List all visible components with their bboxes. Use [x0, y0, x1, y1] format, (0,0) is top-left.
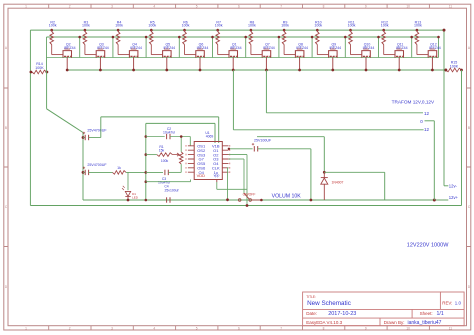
- junction Q6 source: [199, 69, 202, 72]
- oscillator left rail: [145, 123, 147, 200]
- wire C5 right: [89, 137, 101, 139]
- wire gate-res to Q2: [52, 54, 63, 56]
- wire R14-right down: [46, 72, 48, 109]
- wire 0 stub: [425, 120, 435, 122]
- svg-text:IRFZ44: IRFZ44: [163, 46, 175, 50]
- svg-text:12v+: 12v+: [449, 195, 459, 200]
- junction second bus 8: [311, 36, 314, 39]
- title block: [303, 292, 465, 326]
- LED D1: [122, 186, 131, 200]
- svg-text:6: 6: [238, 5, 240, 9]
- svg-text:12: 12: [424, 111, 430, 116]
- junction second bus 12: [437, 36, 440, 39]
- wire 12v- stub: [444, 185, 448, 187]
- wire top bus corner down to 12v-: [443, 30, 445, 186]
- transistor Q11 IRFZ44: [395, 49, 404, 58]
- junction second bus 6: [244, 36, 247, 39]
- junction switch right: [260, 199, 263, 202]
- transistor Q7 IRFZ44: [262, 49, 271, 58]
- junction R15 right: [460, 69, 463, 72]
- transistor Q10 IRFZ44: [362, 49, 371, 58]
- junction diode top: [323, 171, 326, 174]
- svg-text:IRFZ44: IRFZ44: [296, 46, 308, 50]
- wire gate-res to Q1: [218, 54, 229, 56]
- wire pot bottom: [180, 164, 182, 172]
- resistor R9 100k: [283, 29, 286, 32]
- wire pin6 row: [228, 167, 229, 169]
- junction Q10 source: [365, 69, 368, 72]
- wire right rail down to line B: [461, 70, 463, 206]
- svg-text:1.0: 1.0: [455, 301, 462, 306]
- junction R14 left: [30, 71, 33, 74]
- junction lineA x227: [226, 198, 229, 201]
- transistor Q1 IRFZ44: [229, 49, 238, 58]
- svg-text:4069: 4069: [206, 134, 214, 138]
- svg-text:1: 1: [25, 5, 27, 9]
- junction second bus 10: [377, 36, 380, 39]
- svg-text:2: 2: [69, 5, 71, 9]
- svg-text:Sheet:: Sheet:: [420, 311, 433, 316]
- wire 0-terminal down to 12v+: [433, 121, 435, 200]
- resistor R15 100K: [446, 68, 462, 72]
- svg-text:10u47ul: 10u47ul: [163, 131, 175, 135]
- svg-text:100k: 100k: [414, 24, 422, 28]
- wire 1k to rail: [126, 171, 146, 173]
- svg-text:IRFZ44: IRFZ44: [130, 46, 142, 50]
- capacitor C2 10u47ul: [146, 136, 165, 138]
- wire gate-res to Q12: [417, 54, 428, 56]
- wire cell vertical 4: [178, 37, 180, 58]
- svg-text:100k: 100k: [161, 159, 169, 163]
- wire cell vertical 0: [46, 37, 48, 72]
- junction second bus 3: [145, 36, 148, 39]
- junction rail C3 row: [145, 171, 148, 174]
- svg-text:15k: 15k: [159, 148, 165, 152]
- wire down to line B: [246, 155, 248, 206]
- wire L5: [257, 136, 324, 138]
- junction second bus 11: [410, 36, 413, 39]
- svg-text:TRAFOM 12V,0,12V: TRAFOM 12V,0,12V: [392, 100, 435, 105]
- wire Q7 source lead: [265, 58, 267, 70]
- svg-text:25V100UF: 25V100UF: [254, 138, 272, 142]
- svg-text:2: 2: [69, 326, 71, 330]
- svg-text:4: 4: [153, 326, 155, 330]
- svg-text:25V4700UF: 25V4700UF: [87, 163, 107, 167]
- svg-text:IRFZ44: IRFZ44: [97, 46, 109, 50]
- wire line B: [30, 205, 461, 207]
- wire primary top 12: [266, 112, 423, 114]
- svg-text:100k: 100k: [148, 24, 156, 28]
- svg-text:100k: 100k: [49, 24, 57, 28]
- svg-text:7: 7: [280, 5, 282, 9]
- wire to line B vert: [217, 188, 247, 190]
- wire top gate-drive bus: [30, 29, 444, 31]
- junction vdd pin: [228, 148, 230, 150]
- svg-text:IRFZ44: IRFZ44: [263, 46, 275, 50]
- svg-text:8: 8: [323, 326, 325, 330]
- resistor R? 1k: [113, 171, 127, 175]
- svg-text:3: 3: [111, 326, 113, 330]
- svg-text:11: 11: [449, 326, 453, 330]
- svg-text:10: 10: [406, 326, 410, 330]
- potentiometer 100k wiper: [172, 153, 179, 156]
- svg-text:EasyEDA V4.10.3: EasyEDA V4.10.3: [306, 320, 342, 325]
- svg-text:100k: 100k: [215, 24, 223, 28]
- IC pin numbers: [186, 145, 230, 173]
- junction top bus corner: [443, 29, 446, 32]
- resistor R14 100K: [32, 70, 47, 74]
- svg-text:IRFZ44: IRFZ44: [230, 46, 242, 50]
- wire down to line A: [384, 172, 386, 200]
- junction second bus 7: [278, 36, 281, 39]
- svg-text:3: 3: [111, 5, 113, 9]
- svg-text:B: B: [468, 126, 470, 130]
- wire cell vertical 11: [411, 37, 413, 58]
- svg-text:VDD: VDD: [197, 173, 206, 178]
- wire gate-res to Q6: [185, 54, 196, 56]
- junction Q11 source: [398, 69, 401, 72]
- capacitor C4 25v100uf: [167, 197, 170, 202]
- wire Q8 source to primary top: [265, 70, 267, 113]
- wire Q10 source lead: [365, 58, 367, 70]
- wire cell vertical 1: [79, 37, 81, 58]
- transistor Q9 IRFZ44: [329, 49, 338, 58]
- svg-text:8: 8: [323, 5, 325, 9]
- wire gate-res to Q3: [85, 54, 96, 56]
- wire vdd down to line A: [310, 149, 312, 200]
- svg-text:100k: 100k: [348, 24, 356, 28]
- transistor Q2 IRFZ44: [63, 49, 72, 58]
- potentiometer 100k: [179, 152, 183, 164]
- wire cap rail vertical: [82, 133, 84, 201]
- resistor R2 100k: [50, 29, 53, 32]
- wire Q2 source lead: [66, 58, 68, 70]
- op-amp U1 4069 hex inverter IC: [194, 142, 222, 180]
- junction vdd lineA: [310, 199, 313, 202]
- resistor R10 100k: [316, 29, 319, 32]
- wire transistor source bottom bus: [67, 69, 446, 71]
- svg-text:100K: 100K: [450, 64, 459, 68]
- wire Q8 source lead: [299, 58, 301, 70]
- wire gate-res to Q10: [351, 54, 362, 56]
- svg-text:Date:: Date:: [306, 311, 317, 316]
- wire Q9 source lead: [332, 58, 334, 70]
- junction second bus 9: [344, 36, 347, 39]
- wire line A (12v+): [83, 199, 434, 201]
- wire left rail lower: [29, 72, 31, 206]
- svg-text:5: 5: [196, 5, 198, 9]
- frame row ticks: [4, 88, 471, 247]
- svg-text:100k: 100k: [248, 24, 256, 28]
- junction R14 right: [46, 71, 49, 74]
- svg-text:100k: 100k: [314, 24, 322, 28]
- svg-text:IRFZ44: IRFZ44: [396, 46, 408, 50]
- junction Q9 source: [331, 69, 334, 72]
- junction Q1 source: [232, 69, 235, 72]
- transistor Q5 IRFZ44: [163, 49, 172, 58]
- svg-text:100k: 100k: [82, 24, 90, 28]
- svg-text:B: B: [5, 126, 7, 130]
- svg-text:ON/OFF: ON/OFF: [243, 193, 256, 197]
- resistor R7 100k: [216, 29, 219, 32]
- capacitor C5 25V4700UF: [82, 136, 85, 139]
- wire cell vertical 10: [378, 37, 380, 58]
- wire Q12 source lead: [431, 58, 433, 70]
- svg-text:1k: 1k: [117, 166, 121, 170]
- svg-text:25V4700UF: 25V4700UF: [87, 129, 107, 133]
- junction second bus 1: [78, 36, 81, 39]
- wire L3 down to IC: [214, 123, 216, 143]
- wire pin3 row: [229, 154, 248, 156]
- resistor R6 100k: [183, 29, 186, 32]
- svg-text:1: 1: [25, 326, 27, 330]
- junction Q8 source: [298, 69, 301, 72]
- resistor R11 100k: [349, 29, 352, 32]
- wire cell vertical 8: [311, 37, 313, 58]
- wire Q6 source lead: [199, 58, 201, 70]
- wire gate-res to Q8: [284, 54, 295, 56]
- junction LED cathode: [127, 199, 130, 202]
- junction 12v+: [433, 199, 436, 202]
- wire gate-res to Q7: [251, 54, 262, 56]
- junction line B: [246, 204, 249, 207]
- junction rail line A: [145, 199, 148, 202]
- wire Q11 source lead: [398, 58, 400, 70]
- transistor Q8 IRFZ44: [295, 49, 304, 58]
- switch ON/OFF: [238, 199, 241, 202]
- junction rail R1 row: [145, 153, 148, 156]
- svg-text:6: 6: [238, 326, 240, 330]
- junction second bus 2: [112, 36, 115, 39]
- wire rail to IC vss: [146, 181, 191, 183]
- wire vdd row: [229, 148, 253, 150]
- svg-text:100k: 100k: [182, 24, 190, 28]
- svg-text:12V220V 1000W: 12V220V 1000W: [407, 242, 449, 248]
- wire L3: [146, 122, 215, 124]
- resistor R1 15k: [146, 154, 157, 156]
- wire cell vertical 12: [438, 37, 440, 58]
- junction Q12 source: [431, 69, 434, 72]
- wire left rail upper: [29, 30, 31, 72]
- junction Q4 source: [132, 69, 135, 72]
- svg-text:11: 11: [449, 5, 453, 9]
- junction Q5 source: [165, 69, 168, 72]
- svg-text:IRFZ44: IRFZ44: [197, 46, 209, 50]
- resistor R13 100k: [416, 29, 419, 32]
- wire gate-res to Q4: [118, 54, 129, 56]
- svg-text:VOLUM 10K: VOLUM 10K: [272, 194, 302, 200]
- svg-text:12: 12: [424, 127, 430, 132]
- svg-text:IRFZ44: IRFZ44: [429, 46, 441, 50]
- svg-text:25v100uf: 25v100uf: [165, 188, 179, 192]
- svg-text:Drawn By:: Drawn By:: [384, 320, 405, 325]
- svg-text:2017-10-23: 2017-10-23: [328, 311, 356, 317]
- wire cell vertical 2: [112, 37, 114, 58]
- svg-text:100k: 100k: [381, 24, 389, 28]
- svg-text:1/1: 1/1: [437, 311, 444, 317]
- svg-text:IRFZ44: IRFZ44: [329, 46, 341, 50]
- wire gate line under mosfets: [47, 57, 439, 59]
- svg-text:7: 7: [280, 326, 282, 330]
- wire C6 right: [89, 171, 113, 173]
- wire 12v+ stub: [434, 199, 448, 201]
- junction second bus 4: [178, 36, 181, 39]
- transistor Q6 IRFZ44: [196, 49, 205, 58]
- wire Q1 source lead: [232, 58, 234, 70]
- wire cell vertical 5: [212, 37, 214, 58]
- resistor R8 100k: [250, 29, 253, 32]
- wire Q3 source lead: [99, 58, 101, 70]
- junction rail VSS row: [145, 180, 148, 183]
- resistor R5 100k: [150, 29, 153, 32]
- svg-text:vpp: vpp: [214, 173, 220, 177]
- svg-text:1N4007: 1N4007: [332, 180, 344, 184]
- transistor Q12 IRFZ44: [428, 49, 437, 58]
- junction second bus 5: [211, 36, 214, 39]
- wire LED branch down: [127, 172, 129, 190]
- wire down to switch lever: [243, 159, 245, 193]
- svg-text:100k: 100k: [281, 24, 289, 28]
- wire second bus: [47, 36, 439, 38]
- wire gate-res to Q5: [151, 54, 162, 56]
- svg-text:4: 4: [153, 5, 155, 9]
- wire down to line A: [227, 168, 229, 200]
- wire gate-res to Q11: [384, 54, 395, 56]
- wire pot top: [180, 137, 182, 152]
- svg-text:LED: LED: [132, 195, 139, 199]
- resistor R3 100k: [84, 29, 87, 32]
- svg-text:100k: 100k: [115, 24, 123, 28]
- wire diode top to right: [324, 171, 384, 173]
- wire L5 down to diode: [323, 137, 325, 173]
- junction Q3 source: [99, 69, 102, 72]
- svg-text:TITLE:: TITLE:: [306, 295, 316, 299]
- svg-text:ianka_tiberiu47: ianka_tiberiu47: [408, 320, 442, 326]
- wire cell vertical 9: [344, 37, 346, 58]
- svg-text:New Schematic: New Schematic: [307, 300, 351, 307]
- wire cell vertical 3: [145, 37, 147, 58]
- junction R15 left / source bus: [444, 69, 447, 72]
- svg-text:12v-: 12v-: [449, 184, 458, 189]
- junction rail C2 row: [145, 135, 148, 138]
- wire Q5 source lead: [166, 58, 168, 70]
- svg-text:REV:: REV:: [442, 301, 452, 306]
- junction Q7 source: [265, 69, 268, 72]
- frame column ticks: [49, 4, 430, 330]
- resistor R4 100k: [117, 29, 120, 32]
- wire gate-res to Q9: [317, 54, 328, 56]
- wire cell vertical 6: [245, 37, 247, 58]
- capacitor C3 10u47ul: [146, 171, 163, 173]
- wire C2 to IC pin1: [189, 137, 191, 146]
- wire C5 up: [100, 117, 102, 138]
- transistor Q4 IRFZ44: [129, 49, 138, 58]
- resistor R12 100k: [382, 29, 385, 32]
- svg-text:5: 5: [196, 326, 198, 330]
- transistor Q3 IRFZ44: [96, 49, 105, 58]
- wire switch right stub: [252, 199, 262, 201]
- wire pin4 to lever: [229, 158, 245, 160]
- wire Q4 source lead: [133, 58, 135, 70]
- svg-text:IRFZ44: IRFZ44: [363, 46, 375, 50]
- svg-text:IRFZ44: IRFZ44: [64, 46, 76, 50]
- junction Q2 source: [66, 69, 69, 72]
- svg-text:9: 9: [365, 5, 367, 9]
- svg-text:9: 9: [365, 326, 367, 330]
- wire Q7 source to primary bottom: [232, 70, 234, 130]
- wire cell vertical 7: [278, 37, 280, 58]
- wire IC bottom pin down: [216, 182, 218, 189]
- svg-text:10: 10: [406, 5, 410, 9]
- svg-text:100K: 100K: [35, 66, 44, 70]
- IC pins: [188, 146, 229, 182]
- wire diagonal: [47, 109, 83, 133]
- wire L2 to IC: [101, 116, 219, 118]
- wire primary bottom 12: [233, 129, 423, 131]
- capacitor C6 25V4700UF: [82, 171, 85, 174]
- wire L2 down to IC: [218, 117, 220, 143]
